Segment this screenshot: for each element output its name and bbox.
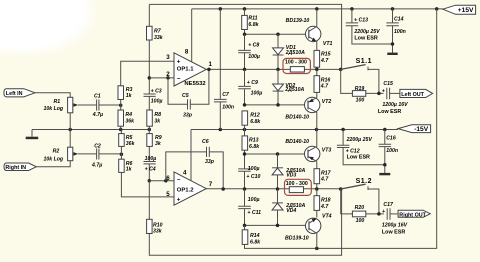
svg-text:−: −: [177, 75, 181, 82]
svg-text:R4: R4: [125, 112, 132, 118]
wire Right IN to R2: [36, 161, 70, 167]
svg-text:4.7µ: 4.7µ: [91, 162, 102, 168]
resistor R9: [147, 130, 153, 162]
resistor R3: [118, 86, 124, 100]
svg-text:VD3: VD3: [286, 172, 296, 178]
svg-text:VD4: VD4: [286, 208, 296, 214]
resistor R4: [118, 110, 124, 130]
capacitor C6: [166, 147, 223, 189]
svg-text:R16: R16: [321, 77, 331, 83]
svg-text:−: −: [177, 176, 181, 183]
transistor VT3: [305, 130, 320, 162]
node C2 / R5 / R6: [120, 152, 124, 156]
node +15V rail / right column: [435, 7, 439, 11]
node +15V rail / C7: [219, 7, 223, 11]
svg-text:2Д510A: 2Д510A: [285, 50, 305, 56]
capacitor C5: [168, 69, 209, 109]
svg-text:R14: R14: [250, 233, 260, 239]
node output line / C8 C9: [243, 68, 247, 72]
node -15V rail / VT2 VT3 collectors: [315, 128, 319, 132]
svg-text:+ C9: + C9: [247, 80, 258, 86]
diode VD4: [272, 189, 283, 225]
svg-text:100 - 300: 100 - 300: [286, 181, 308, 187]
wire pin 4 to -15V rail: [190, 130, 192, 181]
svg-text:+: +: [177, 196, 181, 203]
svg-text:33p: 33p: [205, 159, 214, 165]
trim resistor 100-300 upper: [283, 58, 310, 73]
capacitor C10: [238, 169, 251, 189]
node VT4 base / VD4: [276, 224, 280, 228]
svg-text:R8: R8: [154, 112, 161, 118]
wire VT1 base: [245, 33, 309, 35]
svg-text:OP1.2: OP1.2: [177, 188, 194, 194]
capacitor C2: [97, 149, 122, 160]
svg-text:Right IN: Right IN: [5, 165, 26, 171]
svg-text:1200µ 16V: 1200µ 16V: [382, 223, 408, 229]
node pin2 / R7 / C3: [148, 76, 152, 80]
node output2 / S1.2 / feedback: [339, 187, 343, 191]
svg-text:C17: C17: [383, 202, 394, 208]
svg-text:33p: 33p: [183, 113, 192, 119]
capacitor C14: [386, 9, 399, 53]
svg-text:6.8k: 6.8k: [248, 22, 259, 28]
node ground / R1 R2: [68, 128, 72, 132]
resistor R16: [314, 69, 320, 97]
node -15V rail / R12 R13: [243, 128, 247, 132]
resistor R19: [341, 69, 384, 96]
svg-text:100: 100: [356, 97, 365, 103]
svg-text:C6: C6: [202, 139, 209, 145]
svg-text:R13: R13: [249, 138, 259, 144]
svg-text:5: 5: [166, 191, 170, 198]
svg-text:3: 3: [166, 54, 170, 61]
capacitor C12: [337, 130, 385, 165]
svg-text:+15V: +15V: [458, 7, 474, 14]
transistor VT4: [306, 218, 321, 248]
svg-text:+: +: [382, 209, 385, 215]
svg-text:R2: R2: [53, 148, 60, 154]
op-amp OP1.2: [174, 172, 206, 205]
capacitor C1: [97, 100, 121, 111]
wire right column +15V return: [245, 9, 437, 249]
svg-text:4.7µ: 4.7µ: [92, 112, 103, 118]
node output2 / C10 C11: [243, 187, 247, 191]
svg-text:C7: C7: [222, 92, 230, 98]
node VT2 base / C9 R12: [243, 103, 247, 107]
switch S1.1: [341, 65, 379, 94]
svg-text:R1: R1: [54, 99, 61, 105]
svg-text:Low ESR: Low ESR: [378, 109, 401, 115]
svg-text:2Д510A: 2Д510A: [284, 87, 304, 93]
svg-text:4: 4: [183, 170, 187, 177]
tag Right OUT: [398, 210, 430, 218]
svg-text:VT1: VT1: [323, 41, 333, 47]
resistor R18: [314, 189, 320, 218]
potentiometer R1: [68, 97, 97, 113]
svg-text:+ C3: + C3: [151, 89, 162, 95]
svg-text:S1.1: S1.1: [356, 58, 372, 65]
svg-text:100 - 300: 100 - 300: [285, 59, 307, 65]
node VT4 base / C11 R14: [243, 224, 247, 228]
node -15V rail / C16: [383, 128, 387, 132]
capacitor C4: [144, 162, 156, 181]
node C1 / R3 / R4: [119, 104, 123, 108]
svg-text:Low ESR: Low ESR: [354, 35, 377, 41]
resistor R20: [341, 189, 384, 217]
capacitor C3: [144, 94, 156, 110]
svg-text:R20: R20: [355, 205, 365, 211]
svg-text:Left IN: Left IN: [6, 91, 23, 97]
svg-text:Low ESR: Low ESR: [347, 154, 370, 160]
wire pin 8 to +15V rail: [191, 9, 193, 62]
node VT3 base / VD3: [276, 152, 280, 156]
svg-text:R18: R18: [321, 198, 331, 204]
capacitor C17: [382, 208, 398, 220]
diode VD1: [273, 34, 284, 69]
node output2 / C6: [221, 187, 225, 191]
switch S1.2: [341, 184, 379, 214]
svg-text:NE5532: NE5532: [184, 81, 206, 87]
capacitor C11: [238, 189, 251, 225]
wire op-amp 2 output: [206, 188, 340, 190]
svg-text:4.7: 4.7: [320, 177, 329, 183]
capacitor C9: [238, 69, 251, 105]
svg-text:100µ: 100µ: [248, 197, 260, 203]
svg-text:C1: C1: [94, 93, 101, 99]
node output / C5: [207, 68, 211, 72]
node pin2 / C5 branch: [166, 76, 170, 80]
svg-text:BD140-10: BD140-10: [285, 139, 309, 145]
node ground / R4 R5: [119, 128, 123, 132]
ground symbol left: [26, 130, 39, 140]
wire Left IN to R1: [35, 93, 70, 98]
node ground / R8 R9: [148, 128, 152, 132]
ground symbol upper right: [387, 53, 397, 55]
node +15V rail / C14: [391, 7, 395, 11]
wire pin3 input branch: [121, 61, 174, 110]
svg-text:Low ESR: Low ESR: [382, 230, 405, 236]
svg-text:2200µ 25V: 2200µ 25V: [353, 29, 380, 35]
node output2 / VD3 VD4: [276, 187, 280, 191]
node C13 C14 bottom: [391, 42, 395, 46]
svg-text:100n: 100n: [222, 105, 234, 111]
svg-text:+ C13: + C13: [354, 18, 368, 24]
svg-text:R17: R17: [321, 170, 332, 176]
wire -15V rail: [191, 129, 398, 131]
node -15V rail / C12: [341, 128, 345, 132]
svg-text:VT2: VT2: [322, 99, 332, 105]
svg-text:33k: 33k: [153, 229, 163, 235]
diode VD3: [272, 154, 283, 189]
svg-text:C2: C2: [94, 144, 101, 150]
wire VT4 base: [245, 224, 310, 226]
tag -15V: [398, 125, 431, 133]
diode VD2: [273, 69, 284, 105]
wire R1 bottom to ground to R2 top: [69, 113, 71, 147]
capacitor C7: [214, 9, 227, 130]
resistor R13: [242, 130, 248, 169]
node R20 / S1.2: [377, 212, 381, 216]
svg-text:C14: C14: [394, 17, 404, 23]
transistor VT2: [305, 97, 320, 129]
svg-text:+ C4: + C4: [145, 166, 156, 172]
capacitor C8: [238, 34, 251, 69]
resistor R17: [314, 161, 320, 189]
wire pin 2: [149, 77, 174, 79]
node pin6 / C4 / R10: [148, 179, 152, 183]
wire op-amp output: [206, 68, 340, 70]
svg-text:R11: R11: [248, 16, 257, 22]
svg-text:100µ: 100µ: [145, 156, 157, 162]
resistor R12: [242, 111, 248, 130]
svg-text:100n: 100n: [394, 29, 406, 35]
svg-text:100: 100: [356, 218, 365, 224]
node output line / VD1 VD2: [276, 68, 280, 72]
svg-text:C16: C16: [386, 136, 396, 142]
svg-text:R12: R12: [250, 113, 260, 119]
tag Left IN: [4, 89, 35, 97]
svg-text:OP1.1: OP1.1: [177, 67, 194, 73]
resistor R10: [147, 181, 153, 234]
trim resistor 100-300 lower: [285, 179, 312, 195]
node +15V rail / R11: [243, 7, 247, 11]
node pin6 / C6 branch: [164, 179, 168, 183]
svg-text:7: 7: [209, 181, 213, 188]
svg-text:100µ: 100µ: [248, 166, 260, 172]
svg-text:-15V: -15V: [414, 126, 429, 133]
svg-text:1200µ 16V: 1200µ 16V: [382, 102, 408, 108]
resistor R7: [147, 4, 153, 94]
svg-text:100µ: 100µ: [251, 91, 263, 97]
resistor R11: [242, 9, 248, 34]
svg-text:C5: C5: [182, 93, 189, 99]
wire +15V rail: [192, 8, 443, 10]
wire lower feedback line (R10 bottom to S1.2 node): [149, 189, 341, 255]
svg-text:6: 6: [166, 175, 170, 182]
tag Left OUT: [400, 89, 433, 98]
resistor R15: [314, 50, 320, 69]
svg-text:4.7: 4.7: [320, 204, 329, 210]
svg-text:6.8k: 6.8k: [250, 239, 261, 245]
svg-text:+ C8: + C8: [248, 42, 259, 48]
node +15V rail / VT1 collector: [315, 7, 319, 11]
wire upper feedback line (R7 top to S1.1 node): [149, 4, 341, 69]
svg-text:Left OUT: Left OUT: [401, 92, 424, 98]
node base wire / R11 / C8: [243, 33, 247, 37]
svg-text:2200µ 25V: 2200µ 25V: [346, 137, 373, 143]
node output emitter junction: [315, 68, 319, 72]
svg-text:6.8k: 6.8k: [249, 144, 260, 150]
svg-text:S1.2: S1.2: [356, 178, 372, 185]
resistor R8: [147, 110, 153, 130]
wire pin 6: [149, 180, 174, 182]
node bottom return / VT4 collector: [315, 247, 319, 251]
svg-text:BD139-10: BD139-10: [286, 18, 310, 24]
svg-text:8: 8: [185, 49, 189, 56]
svg-text:36k: 36k: [125, 118, 135, 124]
svg-text:C15: C15: [383, 81, 393, 87]
svg-text:100µ: 100µ: [248, 54, 260, 60]
transistor VT1: [306, 9, 321, 51]
capacitor C13: [346, 9, 393, 44]
node +15V rail / C13: [350, 7, 354, 11]
svg-text:VT4: VT4: [322, 214, 332, 220]
svg-text:Right OUT: Right OUT: [399, 212, 426, 218]
svg-text:R15: R15: [321, 52, 331, 58]
tag Right IN: [4, 163, 36, 171]
resistor R14: [242, 225, 248, 244]
svg-text:+ C11: + C11: [247, 210, 261, 216]
op-amp OP1.1: [174, 53, 206, 86]
resistor R6: [119, 159, 174, 197]
node output2 emitter junction: [315, 187, 319, 191]
svg-text:R7: R7: [154, 29, 162, 35]
svg-text:33k: 33k: [154, 35, 164, 41]
svg-text:BD139-10: BD139-10: [285, 235, 309, 241]
capacitor C15: [382, 88, 400, 100]
svg-text:10k Log: 10k Log: [44, 106, 64, 112]
svg-text:+: +: [382, 88, 385, 94]
node VT3 base / R13 C10: [243, 152, 247, 156]
svg-text:4.7: 4.7: [320, 84, 329, 90]
wire VT2 base: [245, 104, 309, 106]
svg-text:1: 1: [209, 61, 213, 68]
svg-text:R19: R19: [355, 86, 365, 92]
svg-text:+ C10: + C10: [246, 174, 260, 180]
node VT2 base / VD2: [276, 103, 280, 107]
potentiometer R2: [68, 147, 97, 161]
svg-text:100n: 100n: [386, 148, 398, 154]
svg-text:+: +: [177, 59, 181, 66]
svg-text:R10: R10: [153, 222, 163, 228]
svg-text:36k: 36k: [126, 141, 136, 147]
svg-text:BD140-10: BD140-10: [285, 115, 309, 121]
svg-text:10k Log: 10k Log: [44, 156, 64, 162]
node output / S1.1 / feedback: [339, 68, 343, 72]
svg-text:4.7: 4.7: [320, 58, 329, 64]
node R19 / S1.1: [377, 92, 381, 96]
resistor R5: [119, 130, 125, 160]
tag +15V: [443, 5, 476, 14]
svg-text:100µ: 100µ: [151, 99, 163, 105]
capacitor C16: [379, 130, 392, 174]
node -15V rail / C7 bottom: [219, 128, 223, 132]
node C12 C16 bottom: [383, 163, 387, 167]
wire ground line: [32, 129, 150, 131]
wire VT3 base: [245, 153, 309, 155]
ground symbol lower right: [379, 173, 390, 175]
svg-text:6.8k: 6.8k: [250, 119, 261, 125]
svg-text:VT3: VT3: [322, 148, 332, 154]
node base wire / VD1: [276, 33, 280, 37]
